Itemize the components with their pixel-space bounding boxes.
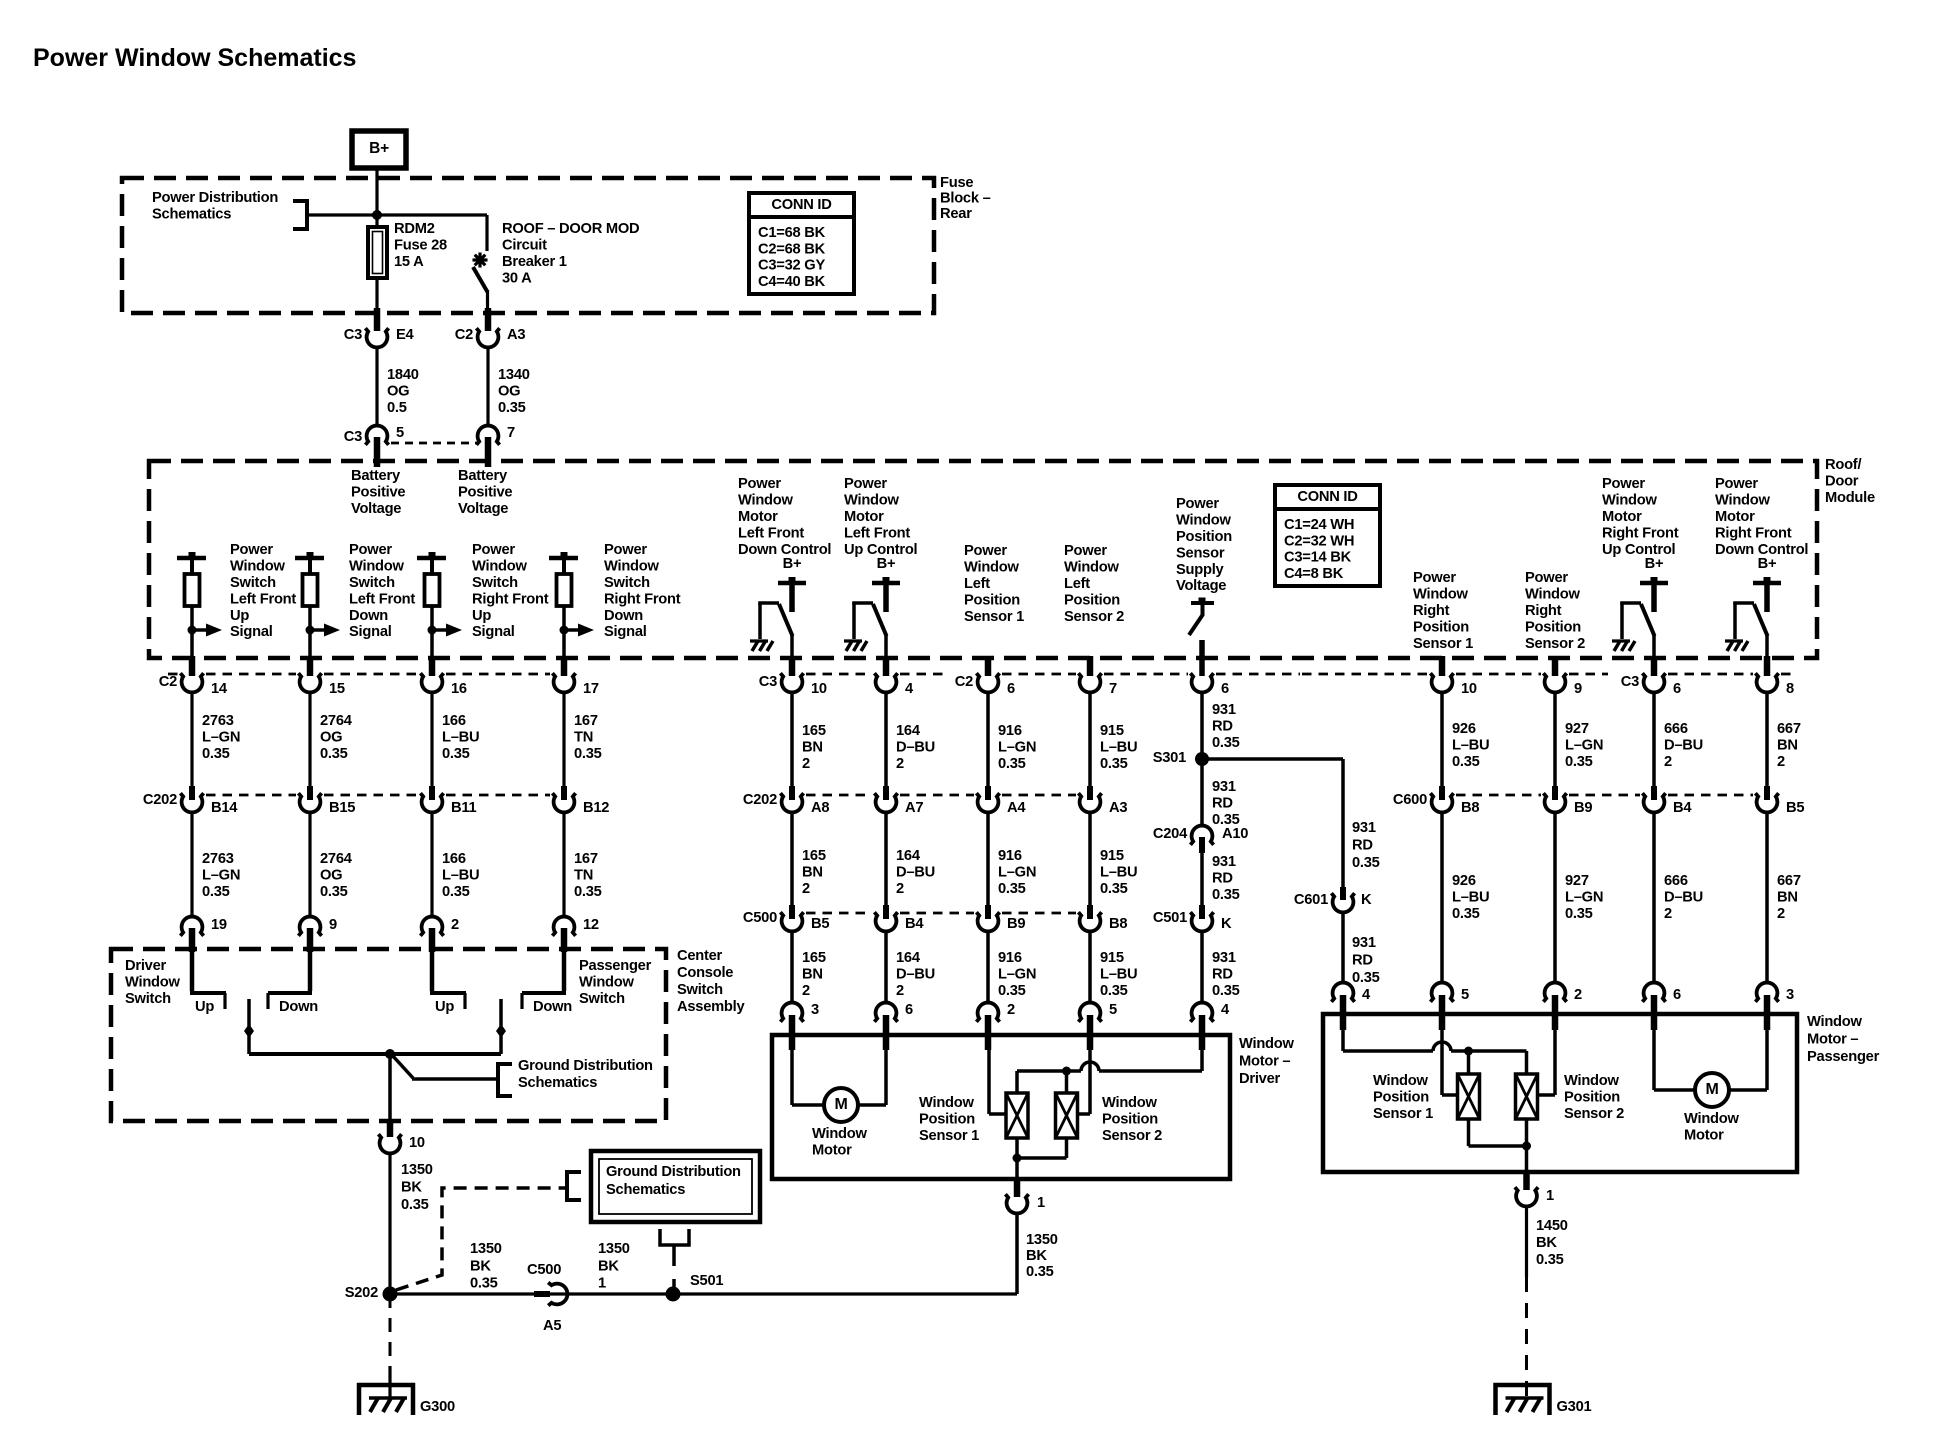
svg-text:BK: BK [470,1258,491,1274]
svg-text:916: 916 [998,950,1022,966]
svg-text:D–BU: D–BU [896,967,935,983]
svg-text:B14: B14 [211,800,238,816]
svg-text:BN: BN [802,865,823,881]
svg-text:6: 6 [1673,987,1681,1003]
svg-text:9: 9 [1574,681,1582,697]
svg-text:RD: RD [1212,796,1233,812]
svg-text:Left: Left [1064,576,1090,592]
svg-text:1: 1 [1037,1195,1045,1211]
svg-text:L–BU: L–BU [1452,738,1489,754]
svg-text:L–BU: L–BU [1452,890,1489,906]
svg-text:C202: C202 [743,792,777,808]
svg-text:0.35: 0.35 [320,746,348,762]
svg-text:Power: Power [349,542,392,558]
svg-text:C2: C2 [455,327,473,343]
svg-text:Window: Window [1525,587,1580,603]
svg-text:Window: Window [1102,1095,1157,1111]
svg-text:L–BU: L–BU [1100,740,1137,756]
svg-text:Schematics: Schematics [606,1182,685,1198]
svg-text:Power Window Schematics: Power Window Schematics [33,44,356,72]
svg-text:BK: BK [401,1180,422,1196]
svg-text:0.35: 0.35 [574,746,602,762]
svg-text:Position: Position [1525,619,1581,635]
svg-text:C3=14 BK: C3=14 BK [1284,550,1352,566]
svg-text:2: 2 [802,881,810,897]
svg-text:BN: BN [1777,890,1798,906]
svg-text:931: 931 [1212,779,1236,795]
svg-text:OG: OG [320,868,342,884]
svg-text:9: 9 [329,917,337,933]
svg-text:C204: C204 [1153,826,1188,842]
svg-text:A8: A8 [811,800,829,816]
svg-text:C4=40 BK: C4=40 BK [758,274,826,290]
svg-text:Signal: Signal [472,624,515,640]
svg-text:931: 931 [1212,950,1236,966]
svg-text:6: 6 [905,1002,913,1018]
svg-text:Signal: Signal [230,624,273,640]
svg-text:Motor: Motor [844,509,884,525]
svg-text:Door: Door [1825,474,1859,490]
svg-text:915: 915 [1100,848,1124,864]
svg-text:Up: Up [435,999,454,1015]
svg-text:Right: Right [1413,603,1450,619]
svg-text:666: 666 [1664,873,1688,889]
svg-text:165: 165 [802,723,826,739]
svg-text:916: 916 [998,848,1022,864]
svg-text:Window: Window [125,975,180,991]
svg-text:Window: Window [964,560,1019,576]
svg-text:Power: Power [1413,570,1456,586]
svg-text:Switch: Switch [230,575,276,591]
svg-text:BN: BN [802,967,823,983]
svg-text:165: 165 [802,950,826,966]
svg-text:RD: RD [1212,719,1233,735]
svg-text:165: 165 [802,848,826,864]
svg-text:M: M [834,1096,847,1113]
svg-text:0.35: 0.35 [1352,970,1380,986]
svg-text:0.35: 0.35 [498,400,526,416]
svg-text:Window: Window [230,559,285,575]
svg-text:Switch: Switch [125,991,171,1007]
svg-text:30 A: 30 A [502,270,532,286]
svg-text:6: 6 [1007,681,1015,697]
svg-text:0.35: 0.35 [1536,1252,1564,1268]
svg-text:Window: Window [1373,1073,1428,1089]
svg-text:15 A: 15 A [394,254,424,270]
svg-text:RD: RD [1352,838,1373,854]
svg-text:3: 3 [811,1002,819,1018]
svg-text:2: 2 [896,881,904,897]
svg-text:Sensor 2: Sensor 2 [1102,1128,1162,1144]
svg-text:2: 2 [802,756,810,772]
svg-text:2: 2 [896,756,904,772]
svg-text:C3=32 GY: C3=32 GY [758,258,825,274]
svg-text:A3: A3 [1109,800,1127,816]
svg-text:0.35: 0.35 [202,884,230,900]
svg-text:Left Front: Left Front [349,591,415,607]
svg-text:B9: B9 [1007,916,1025,932]
svg-text:931: 931 [1352,820,1376,836]
svg-text:931: 931 [1212,702,1236,718]
svg-text:Window: Window [1064,560,1119,576]
svg-text:2: 2 [802,983,810,999]
svg-text:Motor: Motor [1602,509,1642,525]
svg-text:1350: 1350 [470,1241,502,1257]
svg-text:Switch: Switch [472,575,518,591]
svg-text:B15: B15 [329,800,355,816]
svg-text:17: 17 [583,681,599,697]
svg-text:BN: BN [1777,738,1798,754]
svg-text:Window: Window [812,1126,867,1142]
svg-text:L–GN: L–GN [1565,738,1603,754]
svg-text:Down: Down [349,608,388,624]
svg-text:Window: Window [579,975,634,991]
svg-text:0.35: 0.35 [998,756,1026,772]
svg-text:0.35: 0.35 [442,884,470,900]
svg-text:RD: RD [1212,967,1233,983]
svg-text:C2=32 WH: C2=32 WH [1284,533,1354,549]
svg-text:Up: Up [195,999,214,1015]
svg-text:Center: Center [677,948,723,964]
svg-text:6: 6 [1221,681,1229,697]
svg-text:Up: Up [230,608,249,624]
svg-text:0.35: 0.35 [470,1276,498,1292]
svg-text:0.35: 0.35 [1212,983,1240,999]
svg-text:0.35: 0.35 [202,746,230,762]
svg-text:Sensor: Sensor [1176,545,1225,561]
svg-text:Left Front: Left Front [230,591,296,607]
svg-text:C2=68 BK: C2=68 BK [758,241,826,257]
svg-text:Power: Power [1525,570,1568,586]
svg-text:Positive: Positive [351,485,405,501]
svg-text:D–BU: D–BU [1664,890,1703,906]
svg-text:0.35: 0.35 [1565,754,1593,770]
svg-text:Fuse: Fuse [940,175,973,191]
svg-text:Motor: Motor [738,509,778,525]
svg-text:2: 2 [1574,987,1582,1003]
svg-text:Window: Window [1602,493,1657,509]
svg-text:915: 915 [1100,723,1124,739]
svg-text:Voltage: Voltage [458,501,508,517]
svg-text:Up: Up [472,608,491,624]
svg-text:Sensor 1: Sensor 1 [964,609,1024,625]
svg-text:Sensor 1: Sensor 1 [1373,1106,1433,1122]
svg-text:Battery: Battery [458,468,508,484]
svg-text:Left: Left [964,576,990,592]
svg-text:8: 8 [1786,681,1794,697]
svg-text:16: 16 [451,681,467,697]
svg-text:C600: C600 [1393,792,1427,808]
svg-text:15: 15 [329,681,345,697]
svg-text:A5: A5 [543,1318,561,1334]
svg-text:14: 14 [211,681,228,697]
svg-text:0.35: 0.35 [1026,1264,1054,1280]
svg-text:Window: Window [1564,1073,1619,1089]
svg-text:3: 3 [1786,987,1794,1003]
svg-text:167: 167 [574,851,598,867]
svg-text:C3: C3 [344,327,362,343]
svg-text:Power: Power [1602,476,1645,492]
svg-text:0.35: 0.35 [998,881,1026,897]
svg-text:BK: BK [1536,1235,1557,1251]
svg-text:1340: 1340 [498,367,530,383]
svg-text:Right Front: Right Front [472,591,549,607]
svg-text:4: 4 [1362,987,1371,1003]
svg-text:Ground Distribution: Ground Distribution [518,1058,653,1074]
svg-text:0.5: 0.5 [387,400,407,416]
svg-text:Assembly: Assembly [677,999,745,1015]
svg-text:Power: Power [1715,476,1758,492]
svg-text:2: 2 [1007,1002,1015,1018]
svg-text:Position: Position [1102,1112,1158,1128]
svg-text:B+: B+ [369,140,389,157]
svg-text:B11: B11 [451,800,476,816]
svg-text:Rear: Rear [940,206,972,222]
svg-text:Down: Down [279,999,318,1015]
svg-text:0.35: 0.35 [442,746,470,762]
svg-text:0.35: 0.35 [1452,906,1480,922]
svg-text:RD: RD [1212,871,1233,887]
svg-text:D–BU: D–BU [1664,738,1703,754]
svg-text:Down: Down [604,608,643,624]
svg-text:Position: Position [1064,592,1120,608]
svg-text:Right Front: Right Front [1602,525,1679,541]
svg-text:164: 164 [896,848,921,864]
svg-text:Console: Console [677,965,733,981]
svg-text:1450: 1450 [1536,1218,1568,1234]
svg-text:1840: 1840 [387,367,419,383]
svg-text:C2: C2 [159,674,177,690]
svg-text:Motor: Motor [1684,1128,1724,1144]
svg-text:916: 916 [998,723,1022,739]
svg-text:L–BU: L–BU [442,868,479,884]
svg-text:C601: C601 [1294,892,1328,908]
svg-text:L–GN: L–GN [202,730,240,746]
svg-text:A4: A4 [1007,800,1026,816]
svg-text:Window: Window [1715,493,1770,509]
svg-text:Sensor 1: Sensor 1 [1413,636,1473,652]
svg-text:6: 6 [1673,681,1681,697]
svg-text:Power: Power [1176,496,1219,512]
svg-text:1350: 1350 [1026,1232,1058,1248]
svg-text:OG: OG [498,384,520,400]
svg-text:666: 666 [1664,721,1688,737]
svg-text:Battery: Battery [351,468,401,484]
svg-text:TN: TN [574,868,593,884]
svg-text:0.35: 0.35 [1100,983,1128,999]
svg-text:Power: Power [844,476,887,492]
svg-text:Window: Window [844,493,899,509]
svg-text:0.35: 0.35 [1100,881,1128,897]
svg-text:2: 2 [1777,754,1785,770]
svg-text:5: 5 [1461,987,1469,1003]
svg-text:B4: B4 [905,916,924,932]
svg-text:2764: 2764 [320,851,353,867]
svg-text:7: 7 [1109,681,1117,697]
svg-text:Power: Power [604,542,647,558]
svg-text:Ground Distribution: Ground Distribution [606,1164,741,1180]
svg-text:B8: B8 [1109,916,1127,932]
svg-text:G301: G301 [1557,1399,1592,1415]
svg-text:K: K [1221,916,1232,932]
svg-text:164: 164 [896,950,921,966]
svg-text:Left Front: Left Front [844,525,910,541]
svg-text:CONN ID: CONN ID [771,197,831,213]
svg-text:K: K [1361,892,1372,908]
svg-text:B+: B+ [1758,556,1777,572]
svg-text:A3: A3 [507,327,525,343]
svg-text:927: 927 [1565,873,1589,889]
svg-text:L–GN: L–GN [1565,890,1603,906]
svg-text:Module: Module [1825,490,1875,506]
svg-text:Motor –: Motor – [1807,1032,1858,1048]
svg-text:Fuse 28: Fuse 28 [394,238,447,254]
svg-text:Motor –: Motor – [1239,1054,1290,1070]
svg-text:166: 166 [442,713,466,729]
svg-text:Window: Window [472,559,527,575]
svg-text:Switch: Switch [604,575,650,591]
svg-text:E4: E4 [396,327,415,343]
svg-text:C3: C3 [759,674,777,690]
svg-text:Driver: Driver [1239,1071,1280,1087]
svg-text:0.35: 0.35 [1100,756,1128,772]
svg-text:2763: 2763 [202,713,234,729]
svg-text:5: 5 [396,425,404,441]
svg-text:10: 10 [409,1135,425,1151]
svg-text:166: 166 [442,851,466,867]
svg-text:Window: Window [1684,1111,1739,1127]
svg-text:B+: B+ [877,556,896,572]
svg-text:Power: Power [738,476,781,492]
svg-text:Breaker 1: Breaker 1 [502,254,567,270]
svg-text:Positive: Positive [458,485,512,501]
svg-text:B9: B9 [1574,800,1592,816]
svg-text:Down: Down [533,999,572,1015]
svg-text:L–GN: L–GN [998,740,1036,756]
svg-text:Sensor 1: Sensor 1 [919,1128,979,1144]
svg-text:Window: Window [1176,513,1231,529]
svg-text:BN: BN [802,740,823,756]
svg-text:1350: 1350 [598,1241,630,1257]
svg-text:C3: C3 [344,429,362,445]
svg-text:0.35: 0.35 [1565,906,1593,922]
svg-text:C3: C3 [1621,674,1639,690]
svg-text:Window: Window [1239,1036,1294,1052]
svg-text:Right Front: Right Front [1715,525,1792,541]
svg-text:L–GN: L–GN [998,967,1036,983]
svg-text:Driver: Driver [125,958,166,974]
svg-text:B4: B4 [1673,800,1692,816]
svg-text:S501: S501 [690,1273,723,1289]
svg-text:915: 915 [1100,950,1124,966]
svg-text:Motor: Motor [812,1143,852,1159]
svg-text:10: 10 [811,681,827,697]
svg-text:0.35: 0.35 [1212,887,1240,903]
svg-text:Voltage: Voltage [351,501,401,517]
svg-text:TN: TN [574,730,593,746]
svg-text:Left Front: Left Front [738,525,804,541]
svg-text:Motor: Motor [1715,509,1755,525]
svg-text:0.35: 0.35 [320,884,348,900]
svg-text:667: 667 [1777,873,1801,889]
svg-text:167: 167 [574,713,598,729]
svg-text:2: 2 [896,983,904,999]
svg-text:Window: Window [604,559,659,575]
svg-text:1: 1 [1546,1188,1554,1204]
svg-text:Sensor 2: Sensor 2 [1064,609,1124,625]
svg-text:Window: Window [1807,1014,1862,1030]
svg-text:0.35: 0.35 [1352,855,1380,871]
svg-text:Window: Window [919,1095,974,1111]
svg-text:Window: Window [1413,587,1468,603]
svg-text:4: 4 [1221,1002,1230,1018]
svg-text:S202: S202 [345,1285,378,1301]
svg-text:Switch: Switch [349,575,395,591]
svg-text:2764: 2764 [320,713,353,729]
svg-text:926: 926 [1452,873,1476,889]
svg-text:A7: A7 [905,800,923,816]
svg-text:Up Control: Up Control [1602,542,1676,558]
svg-text:19: 19 [211,917,227,933]
svg-text:L–BU: L–BU [1100,865,1137,881]
svg-text:Position: Position [1176,529,1232,545]
svg-text:C1=24 WH: C1=24 WH [1284,517,1354,533]
svg-text:0.35: 0.35 [998,983,1026,999]
svg-text:Schematics: Schematics [152,207,231,223]
svg-text:BK: BK [598,1258,619,1274]
svg-text:C202: C202 [143,792,177,808]
svg-text:Power: Power [1064,543,1107,559]
svg-text:Schematics: Schematics [518,1075,597,1091]
svg-text:667: 667 [1777,721,1801,737]
svg-text:Voltage: Voltage [1176,578,1226,594]
svg-text:L–GN: L–GN [998,865,1036,881]
svg-text:BK: BK [1026,1248,1047,1264]
svg-text:7: 7 [507,425,515,441]
svg-text:927: 927 [1565,721,1589,737]
svg-text:Position: Position [919,1112,975,1128]
svg-text:Signal: Signal [604,624,647,640]
svg-text:12: 12 [583,917,599,933]
svg-text:Power Distribution: Power Distribution [152,190,278,206]
svg-text:2: 2 [1777,906,1785,922]
svg-text:10: 10 [1461,681,1477,697]
svg-text:D–BU: D–BU [896,865,935,881]
svg-text:Window: Window [349,559,404,575]
svg-text:B12: B12 [583,800,609,816]
svg-text:Power: Power [230,542,273,558]
svg-text:C2: C2 [955,674,973,690]
svg-text:Sensor 2: Sensor 2 [1564,1106,1624,1122]
svg-text:C501: C501 [1153,910,1187,926]
svg-text:B5: B5 [811,916,829,932]
svg-text:B+: B+ [783,556,802,572]
svg-text:OG: OG [387,384,409,400]
svg-text:1350: 1350 [401,1162,433,1178]
svg-text:Passenger: Passenger [1807,1049,1880,1065]
svg-text:926: 926 [1452,721,1476,737]
svg-text:Roof/: Roof/ [1825,457,1861,473]
svg-text:Position: Position [1564,1090,1620,1106]
svg-text:B+: B+ [1645,556,1664,572]
svg-text:0.35: 0.35 [574,884,602,900]
svg-text:4: 4 [905,681,914,697]
svg-text:S301: S301 [1153,750,1186,766]
svg-text:931: 931 [1212,854,1236,870]
svg-text:0.35: 0.35 [1452,754,1480,770]
svg-text:CONN ID: CONN ID [1297,489,1357,505]
svg-text:Supply: Supply [1176,562,1225,578]
